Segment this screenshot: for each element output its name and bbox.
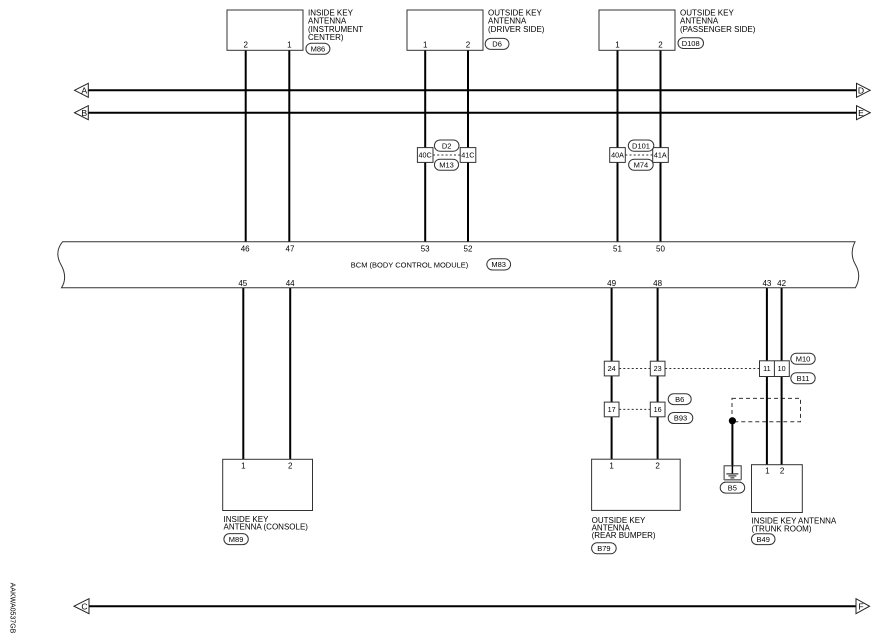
svg-text:(REAR BUMPER): (REAR BUMPER) [592, 531, 656, 540]
svg-text:1: 1 [609, 461, 614, 470]
svg-text:M13: M13 [439, 160, 454, 169]
svg-text:B11: B11 [797, 374, 810, 383]
svg-text:D: D [858, 85, 864, 95]
svg-text:M86: M86 [311, 44, 326, 53]
svg-text:41A: 41A [654, 151, 667, 160]
svg-text:A: A [81, 85, 87, 95]
svg-text:1: 1 [615, 41, 620, 50]
svg-text:2: 2 [658, 41, 663, 50]
svg-text:41C: 41C [461, 151, 474, 160]
svg-text:1: 1 [241, 461, 246, 470]
svg-text:2: 2 [780, 467, 785, 476]
svg-text:51: 51 [613, 245, 622, 254]
svg-text:45: 45 [238, 279, 247, 288]
svg-text:(TRUNK ROOM): (TRUNK ROOM) [752, 524, 812, 533]
svg-text:17: 17 [608, 405, 616, 414]
svg-text:47: 47 [286, 245, 295, 254]
svg-text:CENTER): CENTER) [308, 33, 344, 42]
svg-text:24: 24 [608, 364, 616, 373]
svg-text:46: 46 [241, 245, 250, 254]
svg-text:43: 43 [762, 279, 771, 288]
svg-text:1: 1 [287, 41, 292, 50]
svg-text:10: 10 [778, 364, 786, 373]
svg-text:B6: B6 [675, 395, 684, 404]
svg-text:2: 2 [243, 41, 248, 50]
svg-text:40A: 40A [611, 151, 624, 160]
svg-text:E: E [858, 108, 864, 118]
svg-text:B79: B79 [597, 544, 610, 553]
svg-text:2: 2 [288, 461, 293, 470]
svg-text:D101: D101 [632, 141, 650, 150]
svg-text:1: 1 [765, 467, 770, 476]
svg-text:50: 50 [656, 245, 665, 254]
svg-text:M83: M83 [491, 260, 506, 269]
svg-text:(PASSENGER SIDE): (PASSENGER SIDE) [680, 25, 756, 34]
svg-text:B5: B5 [728, 483, 737, 492]
svg-text:AAKWA0537GB: AAKWA0537GB [9, 583, 16, 634]
svg-text:C: C [81, 601, 87, 611]
svg-text:2: 2 [655, 461, 660, 470]
svg-text:53: 53 [421, 245, 430, 254]
svg-text:40C: 40C [419, 151, 432, 160]
svg-text:44: 44 [286, 279, 295, 288]
svg-text:11: 11 [763, 364, 770, 373]
svg-text:(DRIVER SIDE): (DRIVER SIDE) [488, 25, 545, 34]
svg-text:16: 16 [654, 405, 662, 414]
svg-text:M74: M74 [634, 160, 649, 169]
svg-text:52: 52 [464, 245, 473, 254]
svg-text:F: F [858, 601, 863, 611]
svg-text:B: B [81, 108, 87, 118]
svg-text:49: 49 [607, 279, 616, 288]
svg-text:D108: D108 [682, 39, 700, 48]
svg-text:D2: D2 [442, 141, 452, 150]
svg-text:ANTENNA (CONSOLE): ANTENNA (CONSOLE) [224, 522, 309, 531]
svg-text:48: 48 [653, 279, 662, 288]
svg-text:23: 23 [654, 364, 662, 373]
svg-text:B93: B93 [674, 414, 687, 423]
svg-text:M10: M10 [796, 354, 811, 363]
svg-text:2: 2 [466, 41, 471, 50]
svg-text:B49: B49 [757, 535, 770, 544]
svg-text:D6: D6 [492, 40, 502, 49]
svg-text:M89: M89 [229, 535, 244, 544]
svg-text:BCM (BODY CONTROL MODULE): BCM (BODY CONTROL MODULE) [351, 260, 469, 269]
svg-text:1: 1 [423, 41, 428, 50]
svg-text:42: 42 [777, 279, 786, 288]
